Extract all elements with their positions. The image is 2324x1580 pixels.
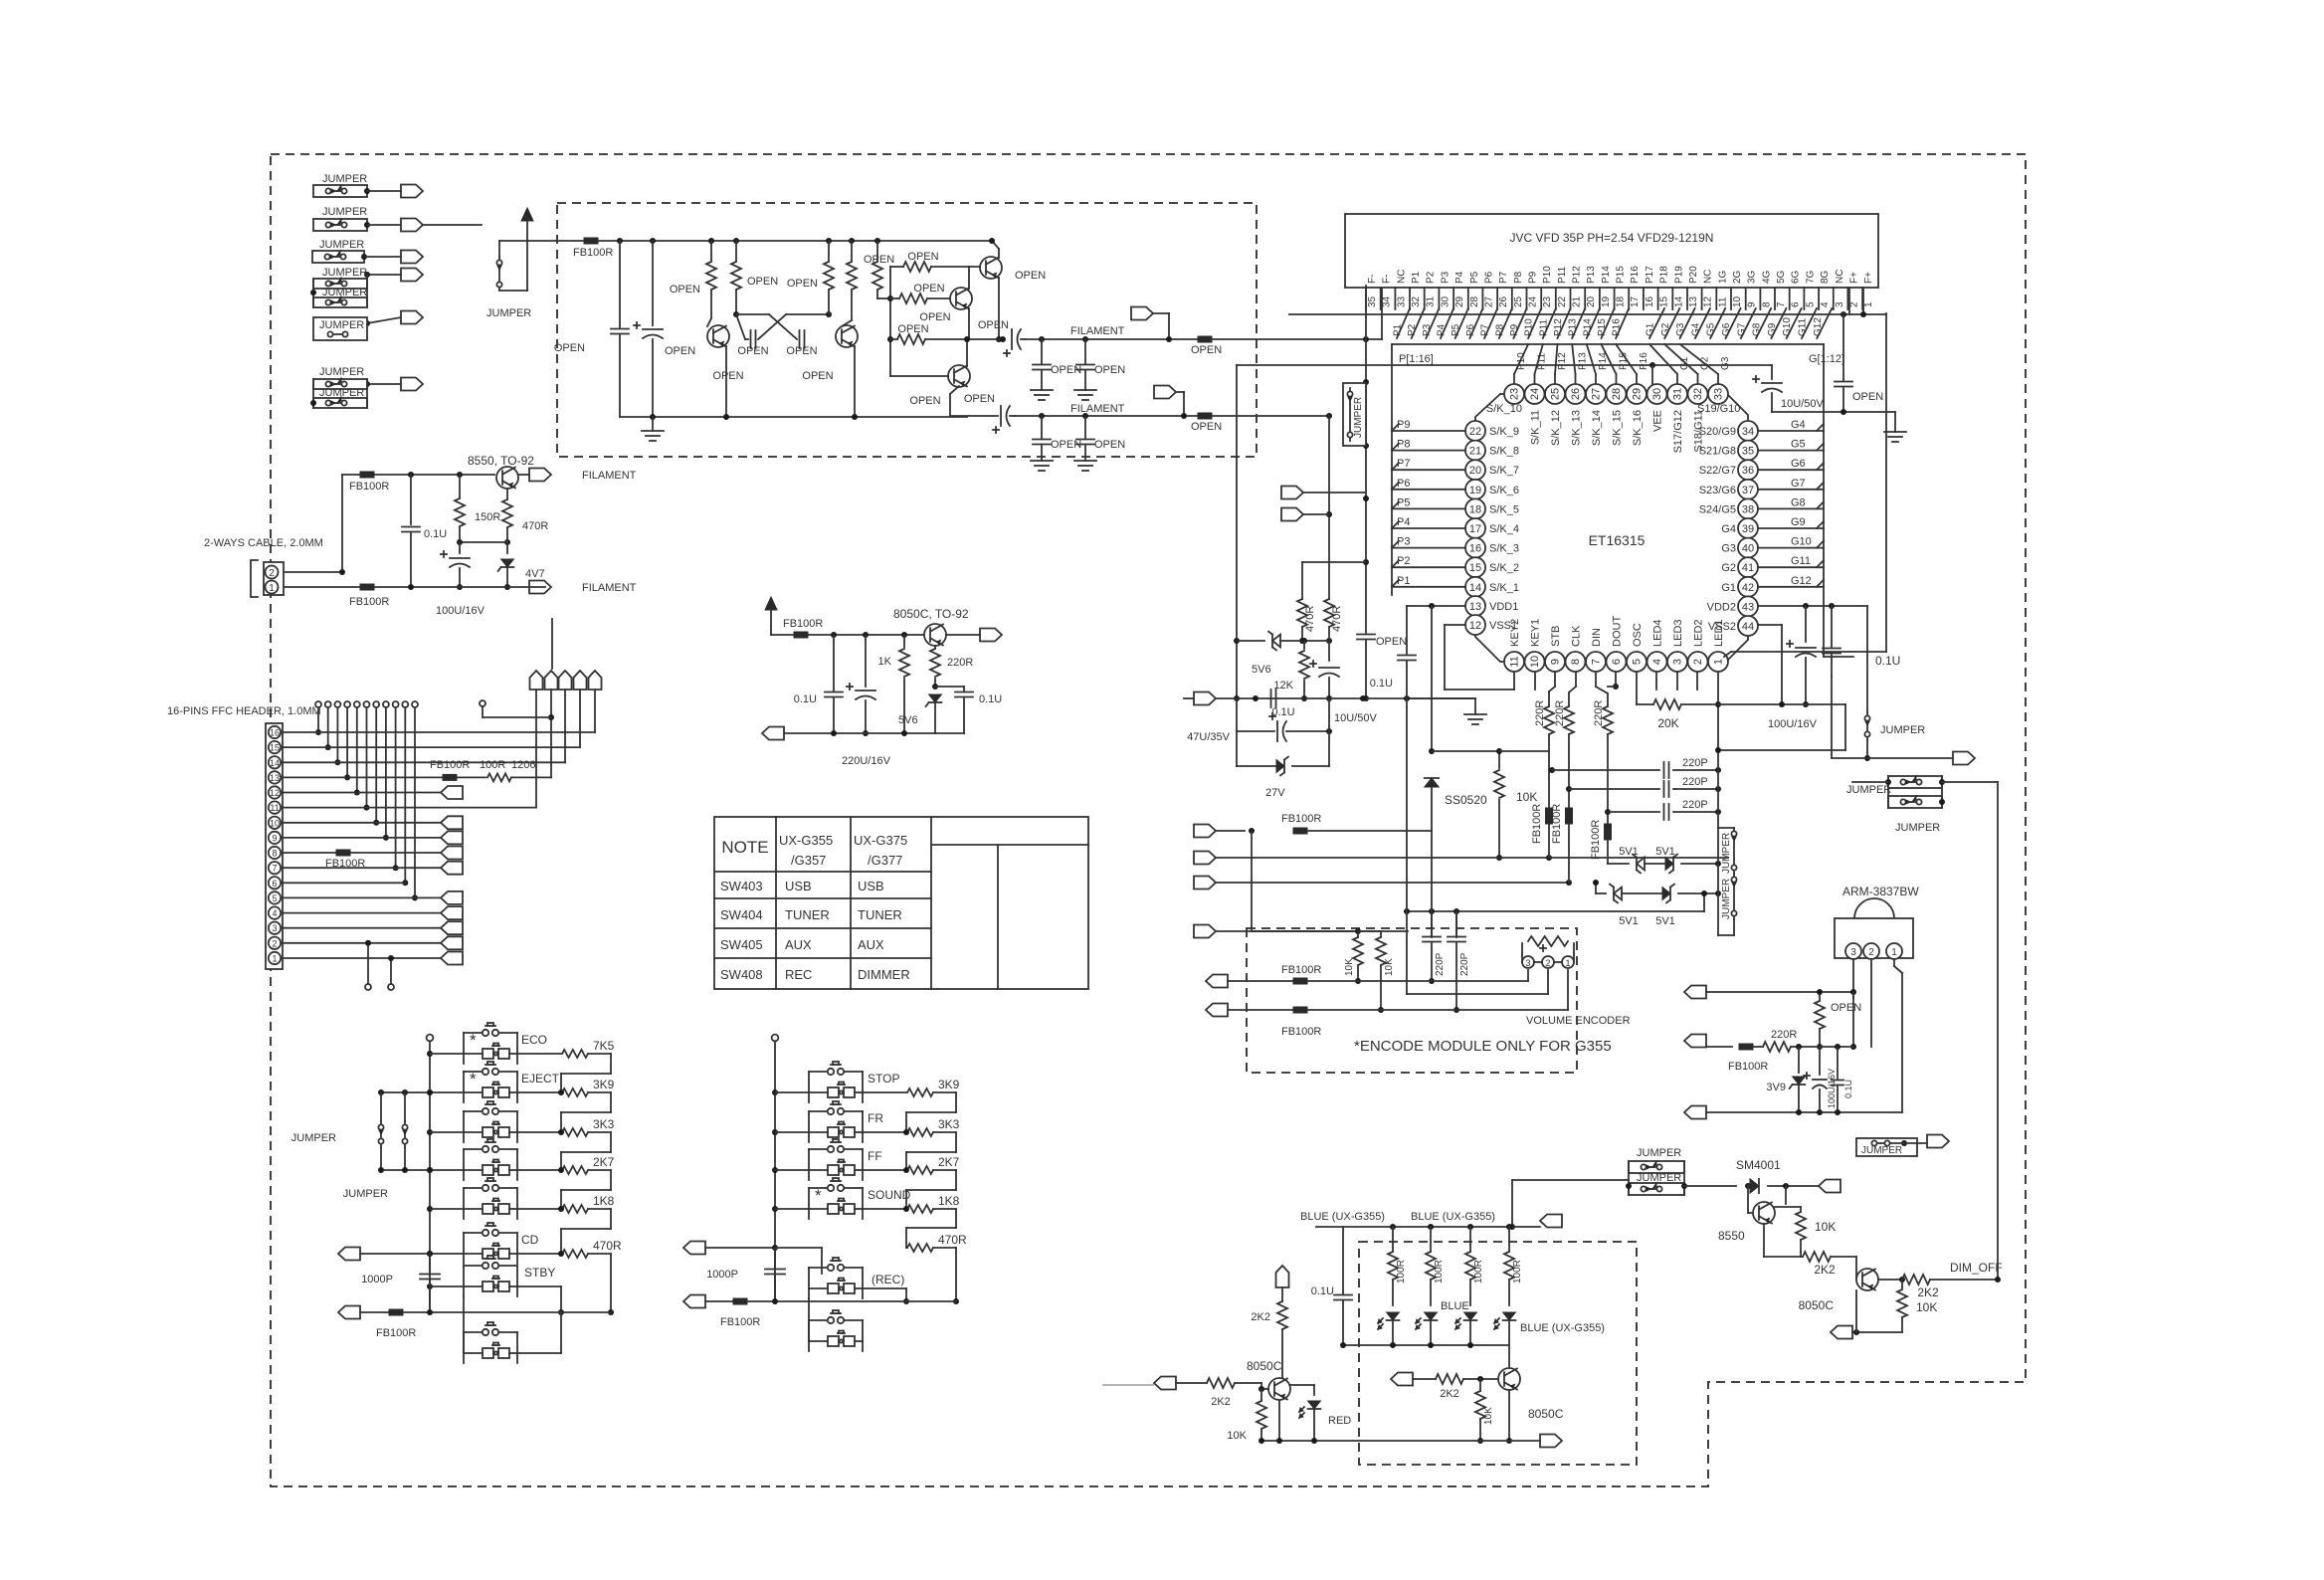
wire SS0520 column [1431, 606, 1433, 751]
header pin 16 [269, 726, 281, 738]
svg-text:P10: P10 [1516, 352, 1527, 370]
wire [1852, 781, 1888, 783]
svg-text:P9: P9 [1509, 323, 1520, 336]
header pin 9 [269, 832, 281, 844]
stub circle single [480, 700, 485, 706]
svg-text:G9: G9 [1791, 516, 1806, 528]
up tags group [530, 671, 543, 690]
wire DIM_OFF column [1997, 782, 1999, 1280]
svg-text:1: 1 [272, 954, 277, 964]
svg-text:P7: P7 [1498, 271, 1509, 284]
capacitor OPEN C3 [750, 330, 752, 348]
resistor 2K7 [863, 1169, 906, 1171]
svg-text:S/K_11: S/K_11 [1530, 410, 1542, 445]
svg-text:29: 29 [1454, 296, 1465, 307]
svg-text:10K: 10K [1483, 1407, 1494, 1425]
wire bottom [284, 586, 545, 588]
wire P9 row [1392, 430, 1465, 432]
wire stub [1102, 1384, 1154, 1386]
svg-text:NC: NC [1703, 270, 1714, 284]
wire [1782, 703, 1845, 705]
svg-text:S/K_5: S/K_5 [1489, 503, 1519, 515]
resistor 470R right ladder [907, 1244, 933, 1252]
connector tag FB100R row [1194, 825, 1216, 838]
svg-text:0.1U: 0.1U [794, 693, 817, 705]
svg-text:100R: 100R [480, 759, 505, 771]
svg-text:G9: G9 [1767, 322, 1778, 336]
svg-text:0.1U: 0.1U [1370, 678, 1393, 690]
resistor OPEN R7 [899, 294, 927, 303]
header pin 10 [269, 817, 281, 829]
connector tag [1819, 1180, 1840, 1193]
svg-text:470R: 470R [593, 1239, 622, 1253]
wire VDD1 [1407, 605, 1465, 607]
svg-text:15: 15 [1659, 296, 1670, 307]
svg-text:JUMPER: JUMPER [322, 173, 367, 185]
svg-text:20: 20 [1586, 296, 1597, 307]
svg-text:22: 22 [1469, 426, 1481, 438]
connector tag FILAMENT [529, 581, 551, 594]
resistor 3K3 [863, 1131, 906, 1133]
switch SW7 STBY [427, 1284, 433, 1289]
svg-text:150R: 150R [475, 511, 500, 523]
header pin 2 [269, 937, 281, 949]
jumper J12 [1733, 873, 1735, 875]
svg-text:G1: G1 [1721, 582, 1736, 594]
wire 470R column2 [1328, 416, 1330, 599]
capacitor 0.1U [1342, 1227, 1344, 1293]
switch SW12 right ladder [772, 1167, 778, 1173]
svg-text:26: 26 [1570, 388, 1582, 400]
svg-text:OPEN: OPEN [909, 395, 940, 407]
resistor 1K8 [517, 1208, 561, 1210]
svg-text:100R: 100R [1473, 1260, 1484, 1284]
svg-text:23: 23 [1542, 296, 1553, 307]
svg-text:470R: 470R [1331, 606, 1343, 632]
svg-text:3: 3 [1835, 301, 1845, 307]
svg-text:9: 9 [272, 833, 277, 843]
svg-text:OPEN: OPEN [897, 323, 928, 335]
svg-text:2K7: 2K7 [593, 1155, 615, 1169]
svg-text:S/K_3: S/K_3 [1489, 543, 1519, 555]
wire to ground [1407, 697, 1475, 699]
svg-text:18: 18 [1616, 296, 1627, 307]
resistor 220R DOUT [1603, 706, 1613, 734]
resistor 100R [1430, 1227, 1432, 1252]
svg-text:470R: 470R [938, 1233, 967, 1247]
fan bus to IC pins G1-G3 [1649, 344, 1677, 374]
ground [1074, 389, 1096, 391]
svg-text:P13: P13 [1586, 266, 1597, 284]
switch SW5 left ladder [427, 1206, 433, 1212]
wire bottom rail [785, 732, 964, 734]
table NOTE [714, 817, 1088, 989]
svg-text:S/K_6: S/K_6 [1489, 485, 1519, 496]
svg-text:16-PINS FFC HEADER, 1.0MM: 16-PINS FFC HEADER, 1.0MM [167, 705, 321, 717]
fan bus to IC pins P10-P16 [1514, 344, 1528, 374]
svg-text:FB100R: FB100R [376, 1327, 416, 1339]
connector tag [1194, 852, 1216, 865]
svg-text:TUNER: TUNER [785, 907, 830, 922]
svg-text:2: 2 [1848, 301, 1859, 307]
wire P5 row [1392, 507, 1465, 509]
svg-text:14: 14 [270, 758, 280, 768]
zener diode 27V [1276, 760, 1284, 773]
resistor 20K [1636, 673, 1638, 704]
svg-text:22: 22 [1557, 296, 1568, 307]
svg-text:STB: STB [1550, 626, 1562, 647]
svg-text:5: 5 [272, 893, 277, 903]
switch SW3 left ladder [427, 1129, 433, 1135]
transistor Q6 8550 [496, 467, 518, 489]
svg-text:20: 20 [1469, 465, 1481, 477]
svg-text:P16: P16 [1630, 266, 1641, 284]
svg-text:4: 4 [272, 908, 277, 918]
svg-text:10K: 10K [1815, 1220, 1836, 1234]
svg-text:CLK: CLK [1571, 625, 1583, 647]
svg-text:P16: P16 [1612, 318, 1623, 336]
resistor 100R [1469, 1227, 1471, 1252]
header pin 13 [269, 771, 281, 783]
svg-text:100U/16V: 100U/16V [1827, 1069, 1837, 1108]
svg-text:P6: P6 [1465, 323, 1476, 336]
svg-text:2: 2 [1692, 659, 1704, 665]
wire [367, 224, 401, 226]
svg-text:DIN: DIN [1591, 628, 1603, 647]
svg-text:LED3: LED3 [1672, 619, 1684, 647]
header pin 1 [269, 952, 281, 964]
svg-text:P6: P6 [1397, 478, 1410, 490]
wire 27V branch [1236, 731, 1238, 766]
transistor Q3 OPEN [980, 257, 1002, 279]
capacitor electrolytic 100U/16V [1819, 1047, 1821, 1075]
transistor Q8 8550 [1747, 1186, 1749, 1213]
svg-text:P13: P13 [1578, 352, 1589, 370]
svg-text:P2: P2 [1426, 271, 1437, 284]
svg-text:FB100R: FB100R [720, 1316, 760, 1328]
jumper J13 [1866, 606, 1868, 712]
connector tag [762, 727, 784, 740]
svg-text:P19: P19 [1673, 266, 1684, 284]
svg-text:G4: G4 [1791, 419, 1806, 431]
svg-text:S19/G10: S19/G10 [1697, 403, 1740, 415]
svg-text:1: 1 [1565, 958, 1570, 968]
svg-text:5V1: 5V1 [1655, 915, 1675, 927]
wire G6 row [1758, 469, 1824, 471]
svg-text:12: 12 [1703, 296, 1714, 307]
svg-text:5V1: 5V1 [1619, 846, 1639, 858]
svg-text:JUMPER: JUMPER [1861, 1145, 1902, 1156]
svg-text:2K2: 2K2 [1814, 1263, 1836, 1277]
svg-text:SW403: SW403 [720, 879, 763, 893]
resistor 2K2 base [1154, 1377, 1176, 1390]
svg-text:8050C: 8050C [1247, 1359, 1282, 1373]
svg-text:P17: P17 [1645, 266, 1655, 284]
wire VSS2 [1758, 624, 1782, 626]
capacitor OPEN C5 electrolytic output1 [1000, 336, 1006, 342]
svg-text:470R: 470R [522, 520, 548, 532]
svg-text:S22/G7: S22/G7 [1699, 465, 1736, 477]
svg-text:4: 4 [1820, 301, 1831, 307]
ferrite bead OPEN [1198, 413, 1212, 419]
connector tag [1194, 925, 1216, 938]
ferrite bead FB100R [584, 238, 598, 244]
svg-text:3V9: 3V9 [1766, 1082, 1786, 1093]
transistor Q9 8050C [1856, 1269, 1878, 1290]
zener diode 5V6 [929, 694, 942, 702]
svg-text:0.1U: 0.1U [1875, 654, 1900, 668]
resistor 10K [1357, 931, 1359, 937]
svg-text:8050C: 8050C [1799, 1298, 1835, 1312]
svg-text:8050C: 8050C [1528, 1407, 1564, 1421]
svg-text:P10: P10 [1542, 266, 1553, 284]
wire jog [588, 1169, 611, 1171]
svg-text:8G: 8G [1820, 270, 1831, 284]
svg-text:G5: G5 [1706, 322, 1717, 336]
svg-text:BLUE (UX-G355): BLUE (UX-G355) [1520, 1322, 1605, 1334]
resistor 2K2 [1902, 1275, 1930, 1284]
svg-text:10: 10 [270, 818, 280, 828]
svg-text:KEY1: KEY1 [1530, 619, 1542, 647]
svg-text:STBY: STBY [524, 1266, 555, 1280]
svg-text:220R: 220R [1771, 1029, 1797, 1041]
svg-text:FILAMENT: FILAMENT [582, 470, 637, 482]
svg-text:LED2: LED2 [1693, 619, 1705, 647]
svg-text:44: 44 [1742, 621, 1754, 633]
resistor 1K [901, 632, 907, 638]
capacitor OPEN [1357, 634, 1375, 636]
svg-text:OPEN: OPEN [1831, 1002, 1861, 1014]
ferrite bead FB100R [1566, 808, 1573, 824]
svg-text:P1: P1 [1397, 575, 1410, 587]
svg-text:JVC VFD 35P PH=2.54 VFD29-1219: JVC VFD 35P PH=2.54 VFD29-1219N [1510, 231, 1714, 245]
wire jog [933, 1169, 956, 1171]
svg-text:6: 6 [1611, 659, 1623, 665]
outer dashed border [271, 154, 2026, 1486]
header pin 7 [269, 862, 281, 874]
svg-text:32: 32 [1411, 296, 1422, 307]
ground [1074, 460, 1096, 462]
capacitor electrolytic 220U/16V [863, 632, 869, 638]
svg-text:P12: P12 [1557, 352, 1568, 370]
svg-text:OPEN: OPEN [964, 393, 995, 405]
svg-text:G4: G4 [1721, 523, 1736, 535]
svg-text:2-WAYS CABLE, 2.0MM: 2-WAYS CABLE, 2.0MM [204, 537, 323, 549]
wire P4 row [1392, 527, 1465, 529]
svg-text:1K8: 1K8 [938, 1194, 960, 1208]
capacitor 0.1U [1270, 690, 1272, 707]
svg-text:39: 39 [1742, 523, 1754, 535]
svg-text:FB100R: FB100R [349, 596, 389, 608]
capacitor 0.1U [1831, 606, 1833, 647]
ferrite bead FB100R [794, 632, 808, 638]
svg-text:10K: 10K [1916, 1300, 1937, 1314]
svg-text:S/K_9: S/K_9 [1489, 426, 1519, 438]
svg-text:BLUE: BLUE [1441, 1300, 1469, 1312]
wire column to encoder [1251, 831, 1253, 931]
svg-text:23: 23 [1509, 388, 1521, 400]
svg-text:28: 28 [1611, 388, 1623, 400]
svg-text:SM4001: SM4001 [1736, 1158, 1781, 1172]
ic top pins 23-33 [1504, 384, 1524, 404]
svg-text:3: 3 [1672, 659, 1684, 665]
wire F+ rail [1289, 313, 1863, 315]
svg-text:5: 5 [1632, 659, 1644, 665]
svg-text:/G357: /G357 [791, 853, 826, 868]
svg-text:S/K_1: S/K_1 [1489, 582, 1519, 594]
svg-text:24: 24 [1529, 388, 1541, 400]
wire [771, 634, 923, 636]
svg-text:3K3: 3K3 [593, 1117, 615, 1131]
connector 2-ways cable [264, 562, 284, 595]
capacitor 220P [1566, 786, 1572, 792]
wire [1772, 411, 1895, 413]
svg-text:18: 18 [1469, 503, 1481, 515]
connector tag up [1276, 1266, 1289, 1287]
led BLUE [1503, 1312, 1516, 1320]
stub circles bottom [365, 984, 371, 990]
switch SW8 bottom [463, 1296, 465, 1353]
wire led bottom rail [1343, 1344, 1509, 1346]
svg-text:24: 24 [1528, 296, 1539, 307]
diode SS0520 [1425, 778, 1439, 787]
svg-text:NOTE: NOTE [721, 838, 768, 857]
capacitor electrolytic 10U/50V [1328, 641, 1330, 661]
svg-text:JUMPER: JUMPER [319, 366, 364, 378]
ic ET16315 body [1475, 394, 1748, 662]
svg-text:35: 35 [1742, 446, 1754, 458]
wire led top rail [1343, 1226, 1540, 1228]
wire [342, 474, 494, 476]
svg-text:P11: P11 [1557, 267, 1568, 284]
wire bottom rail [620, 416, 967, 418]
svg-text:ARM-3837BW: ARM-3837BW [1842, 885, 1919, 898]
resistor 10K [1498, 751, 1500, 768]
resistor 470R [517, 1253, 561, 1255]
svg-text:1G: 1G [1717, 270, 1728, 284]
svg-text:P18: P18 [1659, 266, 1670, 284]
wire jog [933, 1091, 956, 1093]
svg-text:ET16315: ET16315 [1589, 532, 1646, 548]
wire KEY1 stub [1534, 673, 1536, 690]
led BLUE [1387, 1312, 1400, 1320]
jumper J10 [1343, 383, 1366, 446]
svg-text:7K5: 7K5 [593, 1039, 615, 1053]
svg-text:2K2: 2K2 [1917, 1285, 1939, 1299]
ferrite bead FB100R [360, 472, 374, 478]
header pin 14 [269, 756, 281, 768]
svg-text:OPEN: OPEN [712, 370, 743, 382]
svg-text:UX-G375: UX-G375 [854, 833, 907, 848]
connector tag FILAMENT [529, 469, 551, 482]
svg-text:P12: P12 [1572, 266, 1583, 284]
svg-text:OPEN: OPEN [737, 345, 768, 357]
svg-text:S24/G5: S24/G5 [1699, 503, 1736, 515]
svg-text:FB100R: FB100R [1728, 1061, 1768, 1073]
jumper J16 [1856, 1138, 1917, 1156]
led RED [1290, 1384, 1314, 1386]
capacitor electrolytic 47U/35V [1236, 698, 1238, 731]
wire G4 row [1758, 430, 1824, 432]
resistor 470R [1297, 599, 1307, 627]
resistor OPEN R4 [849, 238, 855, 244]
svg-text:FB100R: FB100R [1531, 804, 1543, 844]
svg-text:OPEN: OPEN [554, 342, 585, 354]
resistor 3K9 [517, 1091, 561, 1093]
transistor Q2 OPEN [836, 325, 858, 347]
svg-text:1000P: 1000P [706, 1269, 738, 1281]
G bus fan [1649, 308, 1664, 338]
ferrite bead FB100R [1293, 978, 1307, 984]
resistor OPEN R5 [874, 238, 880, 244]
resistor OPEN R3 [826, 238, 832, 244]
ic bottom pins 11-1 [1504, 652, 1524, 672]
ferrite bead FB100R [1293, 828, 1307, 834]
jumper J11 [1718, 827, 1734, 829]
svg-text:25: 25 [1550, 388, 1562, 400]
svg-text:S/K_4: S/K_4 [1489, 523, 1519, 535]
svg-text:1: 1 [1891, 947, 1897, 958]
resistor OPEN R2 [733, 238, 739, 244]
svg-text:VDD1: VDD1 [1489, 601, 1518, 613]
header pin 15 [269, 741, 281, 753]
capacitor 0.1U [1398, 655, 1416, 657]
zener diode 5V6 [1237, 640, 1264, 642]
wire LED1 column [1717, 673, 1719, 935]
header pin 5 [269, 891, 281, 903]
svg-text:12: 12 [270, 788, 280, 798]
svg-text:AUX: AUX [785, 937, 812, 952]
svg-text:*: * [815, 1186, 822, 1205]
switch SW2 left ladder [427, 1089, 433, 1095]
wire P8 row [1392, 450, 1465, 452]
wire encoder mid [1407, 993, 1548, 995]
wire jog [588, 1253, 611, 1255]
wire stub [551, 619, 553, 669]
capacitor OPEN C4 [799, 330, 801, 348]
svg-text:(REC): (REC) [871, 1273, 904, 1286]
transistor Q5 OPEN [948, 365, 970, 387]
connector tag [1540, 1435, 1562, 1448]
resistor 2K2 [1391, 1373, 1413, 1386]
ground [1884, 431, 1906, 433]
svg-text:28: 28 [1469, 296, 1480, 307]
svg-text:G10: G10 [1782, 317, 1793, 336]
svg-text:4: 4 [1651, 659, 1663, 665]
wire jog [933, 1208, 956, 1210]
svg-text:JUMPER: JUMPER [322, 206, 367, 218]
resistor 100R [1508, 1227, 1510, 1252]
svg-text:OPEN: OPEN [802, 370, 833, 382]
resistor 150R [457, 472, 463, 478]
svg-text:P13: P13 [1568, 318, 1579, 336]
svg-text:G3: G3 [1721, 543, 1736, 555]
svg-text:10U/50V: 10U/50V [1781, 398, 1824, 410]
led module dashed box [1359, 1242, 1637, 1465]
svg-text:USB: USB [858, 879, 884, 893]
svg-text:7: 7 [1776, 301, 1787, 307]
left tags column [441, 786, 463, 799]
svg-text:P11: P11 [1538, 319, 1549, 336]
svg-text:25: 25 [1513, 296, 1524, 307]
wire jog [588, 1208, 611, 1210]
svg-text:7G: 7G [1805, 270, 1816, 284]
svg-text:30: 30 [1440, 296, 1451, 307]
svg-text:6: 6 [272, 879, 277, 889]
wire top rail [527, 240, 584, 242]
svg-text:40: 40 [1742, 543, 1754, 555]
resistor 470R [1324, 599, 1334, 627]
